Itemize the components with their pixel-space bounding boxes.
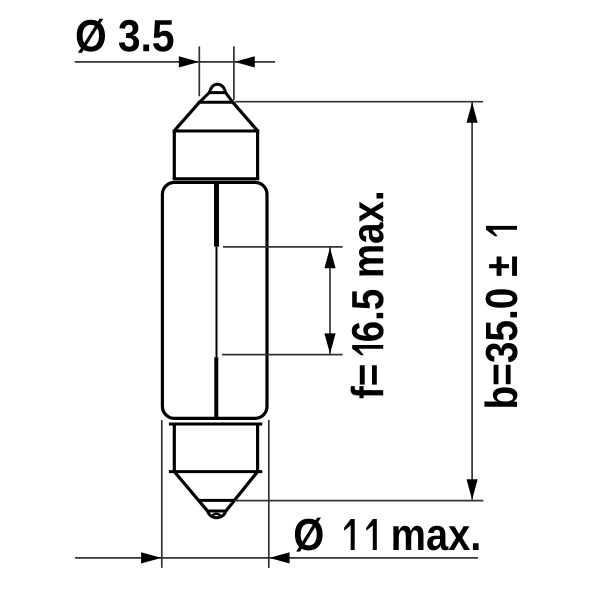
arrowhead diameter 11 right (269, 552, 289, 563)
extension line diameter 11 right (268, 420, 270, 568)
dimension line f (329, 248, 331, 355)
arrowhead diameter 11 left (141, 552, 161, 563)
bulb top neck chord (198, 101, 234, 104)
arrowhead b bottom (467, 479, 478, 499)
extension line diameter 3.5 right (233, 46, 235, 100)
extension line b bottom (235, 500, 483, 502)
arrowhead b top (467, 102, 478, 122)
arrowhead diameter 3.5 right (234, 56, 254, 67)
bulb top cap right side (256, 131, 259, 179)
dimension text diameter 3.5 (77, 19, 174, 53)
arrowhead diameter 3.5 left (179, 56, 199, 67)
bulb top cap base line (173, 177, 260, 180)
bulb bottom cap left side (173, 424, 176, 472)
dimension line diameter 11 (75, 557, 478, 559)
bulb bottom cap top line (169, 423, 262, 426)
bulb top cone left side (174, 102, 199, 131)
bulb bottom cone right side (226, 472, 258, 511)
bulb top exhaust tip dome (209, 84, 225, 92)
arrowhead f top (324, 248, 335, 268)
filament lead wire upper (thick) (214, 184, 219, 247)
bulb bottom cone left side (174, 472, 207, 511)
bulb bottom cap bottom line (169, 470, 262, 473)
extension line b top (235, 101, 483, 103)
bulb top tip left side (199, 93, 209, 103)
bulb top cone right side (233, 102, 258, 131)
dimension line diameter 3.5 (75, 61, 275, 63)
arrowhead f bottom (324, 333, 335, 353)
filament axis middle (thin) (216, 247, 218, 358)
extension line f top (223, 246, 343, 248)
extension line diameter 11 left (161, 420, 163, 568)
dimension text diameter 11 max (295, 518, 479, 552)
extension line f bottom (222, 354, 343, 356)
bulb top cap shoulder line (173, 130, 260, 133)
bulb bottom tip dimple arc (212, 514, 221, 518)
bulb top tip right side (226, 93, 233, 103)
bulb top cap left side (173, 131, 176, 179)
bulb bottom exhaust tip dome (207, 511, 226, 518)
bulb top tip chord (208, 91, 227, 94)
dimension text f=16.5 max (351, 193, 384, 398)
dimension text b=35.0 plus-minus 1 (484, 226, 517, 407)
filament lead wire lower (thick) (214, 357, 218, 418)
bulb bottom cap right side (256, 424, 259, 472)
extension line diameter 3.5 left (198, 46, 200, 96)
bulb bottom tip lower chord (207, 510, 227, 513)
dimension line b (471, 103, 473, 500)
glass tube outline (162, 182, 267, 418)
bulb bottom tip chord (198, 499, 235, 502)
